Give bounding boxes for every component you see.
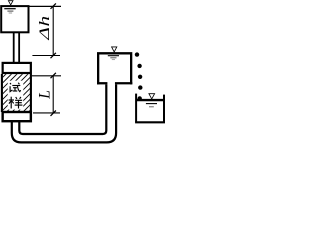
- svg-text:Δh: Δh: [36, 15, 52, 41]
- svg-text:L: L: [36, 90, 53, 100]
